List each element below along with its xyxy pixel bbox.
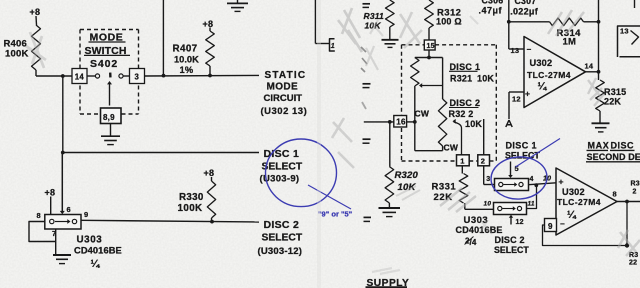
potentiometer R321 <box>411 58 419 87</box>
svg-text:8,9: 8,9 <box>103 113 115 122</box>
svg-text:1M: 1M <box>563 37 577 48</box>
svg-text:¼: ¼ <box>538 81 548 93</box>
svg-text:14: 14 <box>585 62 594 71</box>
svg-text:R321: R321 <box>450 74 472 84</box>
switch U303 section3 control pin 5 <box>510 162 512 177</box>
wire box15 to node <box>428 50 430 58</box>
resistor R312 <box>425 0 434 28</box>
svg-text:12: 12 <box>516 219 524 226</box>
svg-text:+8: +8 <box>203 19 214 29</box>
svg-text:R32 2: R32 2 <box>449 109 474 119</box>
pencil smudge near C306 <box>470 16 478 24</box>
switch S402 pin 14 <box>72 69 87 84</box>
svg-text:S402: S402 <box>90 58 118 70</box>
cut wire stub (x=363,y=140) <box>363 138 371 140</box>
wire to right-edge connector <box>314 0 316 44</box>
svg-text:9: 9 <box>84 210 88 219</box>
switch S402 contact circles <box>95 74 99 78</box>
svg-text:+: + <box>559 176 564 186</box>
svg-text:CD4016BE: CD4016BE <box>456 225 503 235</box>
switch U303 section2 control pin 12 <box>510 216 512 225</box>
svg-text:DISC: DISC <box>611 141 635 151</box>
resistor R314 (feedback) <box>550 18 584 26</box>
pencil smudge near switch boxes <box>480 220 492 234</box>
resistor R406 <box>32 25 41 70</box>
wire switch2 out riser <box>527 185 537 208</box>
svg-text:.47μf: .47μf <box>479 6 503 16</box>
svg-text:+8: +8 <box>30 7 41 17</box>
svg-text:3: 3 <box>135 73 140 82</box>
svg-text:¼: ¼ <box>567 209 577 221</box>
op-amp2 output wire <box>617 201 640 203</box>
svg-text:U303: U303 <box>77 235 103 246</box>
wire to R320 <box>389 122 391 167</box>
svg-text:13: 13 <box>620 27 629 36</box>
connector box pin 1 (dashed edge) <box>457 155 470 166</box>
blue annotation pointer line <box>308 185 351 209</box>
trimmer R322 <box>442 58 444 100</box>
svg-text:+8: +8 <box>204 168 215 178</box>
R322 wiper to box 1 <box>454 122 462 155</box>
svg-text:11: 11 <box>528 201 535 208</box>
svg-text:MAX: MAX <box>588 141 610 151</box>
svg-text:100K: 100K <box>178 203 203 214</box>
svg-text:MODE: MODE <box>267 82 299 93</box>
wire box2 down to switch1 pin 3 <box>483 166 485 185</box>
svg-text:TLC-27M4: TLC-27M4 <box>557 197 601 207</box>
connector stub box pin 1 <box>330 39 335 51</box>
inverting input pin 9 box <box>545 219 557 232</box>
ground (R311) <box>382 39 399 41</box>
svg-text:CIRCUIT: CIRCUIT <box>264 93 303 104</box>
svg-text:100K: 100K <box>5 49 29 60</box>
svg-text:CW: CW <box>444 143 459 153</box>
wire vertical drop to DISC selects <box>62 76 64 153</box>
svg-text:C307: C307 <box>515 0 537 6</box>
svg-text:SECOND DE: SECOND DE <box>587 152 640 162</box>
pencil smudge above SUPPLY <box>372 268 400 274</box>
svg-text:1: 1 <box>460 157 464 166</box>
pencil smudge near R406 <box>26 32 46 68</box>
svg-text:STATIC: STATIC <box>265 70 307 81</box>
wire vertical feedback right <box>598 0 600 80</box>
pencil smudge around R331 <box>440 188 476 212</box>
pencil smudge over R314 <box>548 10 584 36</box>
pencil smudge left of R312 <box>400 12 422 48</box>
cut wire stub (x=363,y=219) <box>364 216 372 218</box>
analog switch U303 2/4 box <box>494 203 527 215</box>
svg-text:13: 13 <box>511 46 520 55</box>
svg-text:R3: R3 <box>629 252 638 259</box>
svg-text:2: 2 <box>633 189 637 196</box>
svg-text:CW: CW <box>415 109 430 119</box>
svg-text:DISC 1: DISC 1 <box>450 62 481 72</box>
svg-text:+: + <box>525 89 530 99</box>
svg-text:R3: R3 <box>631 181 640 188</box>
wire C307 node down to op-amp pin13 <box>508 0 510 49</box>
svg-text:CD4016BE: CD4016BE <box>74 246 122 256</box>
svg-text:"9" or "5": "9" or "5" <box>318 210 353 219</box>
pencil scribble right of op-amp1 <box>588 78 604 106</box>
cut wire stub top edge <box>363 3 371 5</box>
svg-text:10K: 10K <box>477 74 494 84</box>
svg-text:(U303-12): (U303-12) <box>258 246 303 257</box>
op-amp U302 1/4 (first) <box>524 37 586 108</box>
svg-text:R311: R311 <box>364 11 385 21</box>
wire vertical from top at x=163 <box>162 0 164 76</box>
svg-text:U302: U302 <box>530 58 553 68</box>
svg-text:/4: /4 <box>470 238 477 247</box>
wire above box 2 <box>483 119 485 155</box>
cut op-amp top right corner <box>634 0 636 8</box>
svg-text:R315: R315 <box>604 87 626 97</box>
svg-text:12: 12 <box>512 94 521 103</box>
wire into box 16 <box>364 121 394 123</box>
ground (R320) <box>379 207 401 209</box>
switch S402 pin 3 <box>130 69 145 84</box>
wire box1 to R331 <box>461 166 463 174</box>
svg-text:2: 2 <box>481 157 485 166</box>
svg-text:8: 8 <box>37 211 41 220</box>
svg-text:1%: 1% <box>180 65 194 75</box>
svg-text:R331: R331 <box>432 182 457 193</box>
svg-text:−: − <box>527 45 532 54</box>
feedback loop wire (pin9) <box>543 202 628 246</box>
pencil tick below stub <box>362 102 366 109</box>
resistor R407 <box>206 31 215 66</box>
svg-text:DISC 2: DISC 2 <box>495 235 525 245</box>
svg-text:100 Ω: 100 Ω <box>436 17 462 27</box>
wire mode switch output row <box>145 74 260 77</box>
op-amp U302 2/4 (second) <box>556 168 617 235</box>
svg-text:15: 15 <box>427 43 435 50</box>
pencil smudge below R311 <box>370 20 383 36</box>
dashed sub-circuit enclosure <box>402 44 425 46</box>
connector box pin 2 (dashed edge) <box>478 155 490 166</box>
svg-text:10.0K: 10.0K <box>174 55 199 65</box>
blue annotation diagonal line <box>516 139 561 168</box>
pencil smudge bottom right <box>618 230 640 256</box>
connector box pin 16 <box>394 116 407 128</box>
blue annotation circle (U303-9) <box>266 139 337 207</box>
svg-text:1: 1 <box>331 43 335 50</box>
wire DISC 1 select row <box>61 151 65 155</box>
svg-text:8: 8 <box>613 190 617 199</box>
node junction left rail <box>61 74 65 78</box>
svg-text:+8: +8 <box>45 188 56 198</box>
resistor R315 <box>596 80 605 111</box>
ground (mode switch) <box>101 135 120 137</box>
switch S402 common pins 8,9 box <box>101 108 122 124</box>
svg-text:10: 10 <box>484 201 492 208</box>
svg-text:9: 9 <box>548 222 553 231</box>
pencil smudge near R320 row <box>332 118 354 168</box>
svg-text:4: 4 <box>530 176 534 183</box>
svg-text:DISC 1: DISC 1 <box>506 140 537 150</box>
ground (R315) <box>592 122 610 124</box>
wire arrow into U303 pin 6 <box>61 153 63 214</box>
svg-text:SELECT: SELECT <box>494 245 529 255</box>
cut wire stub (x=363,y=85) <box>363 83 371 85</box>
pencil marks left of R311 <box>361 47 367 72</box>
resistor R320 <box>385 167 394 203</box>
ground (U303) <box>53 254 71 256</box>
svg-text:TLC-27M4: TLC-27M4 <box>527 70 571 80</box>
wire U303 pin8-pin7 loop <box>29 222 56 242</box>
resistor R311 <box>386 0 395 27</box>
svg-text:DISC 2: DISC 2 <box>450 98 481 108</box>
page seam shading <box>317 0 321 288</box>
svg-text:¼: ¼ <box>91 258 101 270</box>
wire 8,9 box to ground <box>110 124 112 136</box>
switch S402 wiper arrow from common <box>109 83 111 106</box>
wire R331 to switch2 pin 10 <box>465 208 494 210</box>
analog switch U303 1/4 box <box>45 215 81 230</box>
analog switch U303 3/4 box <box>495 179 529 191</box>
svg-text:DISC 2: DISC 2 <box>264 219 300 231</box>
wire U303 pin7 to ground <box>55 229 57 254</box>
mode switch dashed enclosure <box>80 29 139 31</box>
svg-text:R330: R330 <box>179 192 204 203</box>
svg-text:16: 16 <box>396 118 406 127</box>
pencil smudge right page edge top <box>338 8 362 52</box>
blue annotation circle (pin 5) <box>490 155 549 201</box>
svg-text:U302: U302 <box>562 187 585 197</box>
svg-text:SELECT: SELECT <box>262 161 303 172</box>
pencil smudge under R320 label <box>396 186 420 200</box>
svg-text:6: 6 <box>67 205 71 214</box>
wire DISC 2 select row <box>81 220 259 222</box>
connector box pin 15 <box>424 40 435 50</box>
svg-text:(U302 13): (U302 13) <box>261 106 308 117</box>
net label A (arrow) <box>506 120 512 127</box>
wire R406 to mode switch <box>35 70 37 76</box>
svg-text:R320: R320 <box>395 170 419 181</box>
resistor R330 <box>207 181 215 218</box>
wire switch1 out to op-amp <box>529 183 557 185</box>
svg-text:.022μf: .022μf <box>510 7 539 17</box>
svg-text:22K: 22K <box>604 97 621 107</box>
svg-text:3: 3 <box>486 176 490 183</box>
ground (top center) <box>237 0 239 3</box>
svg-text:R407: R407 <box>173 44 198 55</box>
svg-text:−: − <box>560 220 565 229</box>
svg-text:22: 22 <box>629 260 637 267</box>
svg-text:10K: 10K <box>465 119 482 129</box>
svg-text:SELECT: SELECT <box>262 232 303 243</box>
resistor R331 <box>459 174 468 204</box>
wire op-amp pin 12 to net A <box>508 92 510 119</box>
svg-text:14: 14 <box>75 73 85 82</box>
